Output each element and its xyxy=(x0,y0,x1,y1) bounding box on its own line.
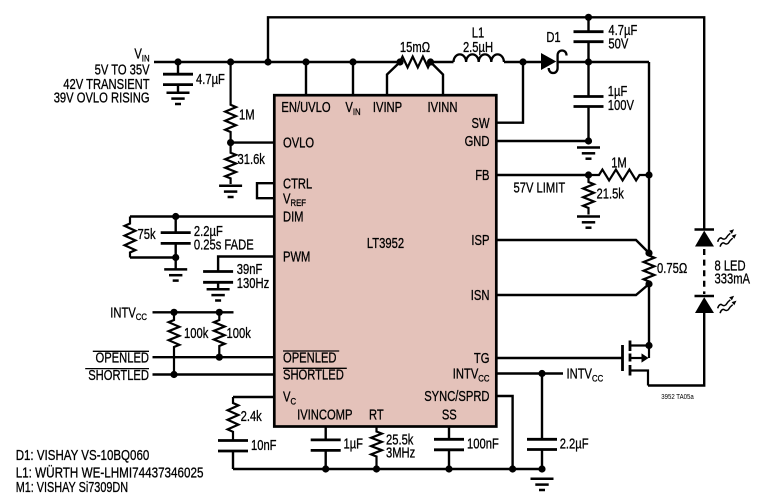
ground DIM cap xyxy=(164,268,187,271)
junction input cap xyxy=(174,58,181,65)
wire PWM xyxy=(218,257,274,272)
svg-text:PWM: PWM xyxy=(283,250,310,266)
svg-text:100k: 100k xyxy=(184,326,209,342)
svg-text:INTV: INTV xyxy=(110,305,136,321)
wire VC xyxy=(233,396,274,398)
svg-text:OPENLED: OPENLED xyxy=(283,350,337,366)
svg-text:100nF: 100nF xyxy=(467,437,499,453)
junction 15mOhm right xyxy=(427,58,434,65)
svg-text:1M: 1M xyxy=(611,156,627,172)
wire FB xyxy=(496,174,588,176)
ground GND pin xyxy=(577,146,600,149)
svg-text:1µF: 1µF xyxy=(344,437,364,453)
junction IVINCOMP gnd xyxy=(322,465,329,472)
svg-text:CC: CC xyxy=(592,373,603,384)
junction 1M FB right xyxy=(645,171,652,178)
svg-text:0.25s FADE: 0.25s FADE xyxy=(194,237,254,253)
svg-text:SS: SS xyxy=(442,408,457,424)
capacitor 1uF IVINCOMP xyxy=(311,438,341,441)
svg-text:100V: 100V xyxy=(608,98,634,114)
svg-text:OVLO: OVLO xyxy=(283,136,314,152)
junction EN/UVLO xyxy=(302,58,309,65)
junction DIM cap bottom xyxy=(172,254,179,261)
junction VIN pin xyxy=(349,58,356,65)
junction 100k left top xyxy=(170,309,177,316)
svg-text:ISP: ISP xyxy=(471,233,489,249)
svg-text:57V LIMIT: 57V LIMIT xyxy=(514,181,566,197)
junction output cap top xyxy=(585,14,592,21)
wire ISP xyxy=(496,240,649,253)
svg-text:SW: SW xyxy=(472,116,490,132)
svg-text:31.6k: 31.6k xyxy=(238,152,266,168)
wire EN/UVLO drop xyxy=(305,62,307,95)
svg-text:SYNC/SPRD: SYNC/SPRD xyxy=(424,389,489,405)
junction INTVCC cap gnd xyxy=(538,465,545,472)
junction output caps xyxy=(585,58,592,65)
svg-text:333mA: 333mA xyxy=(715,271,751,287)
junction INTVCC xyxy=(538,370,545,377)
svg-text:FB: FB xyxy=(475,168,489,184)
wire LED return xyxy=(648,313,704,386)
svg-text:D1: D1 xyxy=(546,30,560,46)
junction SYNC/SPRD gnd xyxy=(509,465,516,472)
wire VIN pin drop xyxy=(352,62,354,95)
svg-text:2.4k: 2.4k xyxy=(241,409,263,425)
transistor M1 PMOS xyxy=(621,345,624,371)
junction ISP xyxy=(645,249,652,256)
junction SW node xyxy=(519,58,526,65)
capacitor 39nF xyxy=(203,270,233,273)
svg-text:2.5µH: 2.5µH xyxy=(463,40,493,56)
resistor 1M OVLO xyxy=(225,62,236,143)
junction SS gnd xyxy=(445,465,452,472)
svg-text:L1: L1 xyxy=(472,26,485,42)
svg-text:OPENLED: OPENLED xyxy=(96,351,150,367)
junction top rail branch xyxy=(264,58,271,65)
wire VIN rail xyxy=(154,61,400,63)
resistor 100k right xyxy=(214,312,225,357)
svg-text:100k: 100k xyxy=(227,326,252,342)
diode D1 schottky cathode xyxy=(549,50,567,73)
wire sense to M1 drain xyxy=(648,285,650,346)
wire SYNC/SPRD xyxy=(496,396,512,469)
svg-text:1M: 1M xyxy=(239,108,255,124)
junction OVLO xyxy=(227,139,234,146)
svg-text:ISN: ISN xyxy=(471,288,490,304)
svg-text:EN/UVLO: EN/UVLO xyxy=(281,100,330,116)
capacitor 10nF xyxy=(218,439,248,442)
capacitor 2.2uF INTVCC xyxy=(527,438,557,441)
svg-text:CC: CC xyxy=(478,373,489,384)
svg-text:IVINP: IVINP xyxy=(373,100,402,116)
resistor 75k xyxy=(125,217,136,258)
junction 15mOhm left xyxy=(396,58,403,65)
svg-text:130Hz: 130Hz xyxy=(237,276,269,292)
ground INTVCC xyxy=(531,478,554,481)
ground 21.5k xyxy=(577,215,600,218)
svg-text:REF: REF xyxy=(291,198,307,209)
wire bottom rail xyxy=(233,468,542,470)
svg-text:SHORTLED: SHORTLED xyxy=(283,368,344,384)
svg-text:D1: VISHAY VS-10BQ060: D1: VISHAY VS-10BQ060 xyxy=(16,448,150,464)
wire top rail xyxy=(268,17,704,229)
wire 15mOhm to L1 xyxy=(431,61,454,63)
svg-text:75k: 75k xyxy=(138,227,157,243)
capacitor 100nF SS xyxy=(434,438,464,441)
wire DIM xyxy=(130,215,274,217)
svg-text:SHORTLED: SHORTLED xyxy=(88,368,149,384)
svg-text:0.75Ω: 0.75Ω xyxy=(657,261,687,277)
resistor 1M FB xyxy=(589,170,650,181)
ground input cap xyxy=(167,92,190,95)
svg-text:CC: CC xyxy=(136,312,147,323)
svg-text:RT: RT xyxy=(369,408,384,424)
svg-text:21.5k: 21.5k xyxy=(597,187,625,203)
wire IVINN xyxy=(431,62,444,95)
svg-text:TG: TG xyxy=(474,351,490,367)
wire GND pin xyxy=(496,140,588,142)
wire CTRL-VREF jumper xyxy=(257,183,274,198)
wire SHORTLED xyxy=(153,373,275,375)
wire ISN xyxy=(496,284,649,295)
svg-text:V: V xyxy=(283,390,291,406)
svg-text:3952 TA05a: 3952 TA05a xyxy=(661,392,694,401)
svg-text:10nF: 10nF xyxy=(251,438,277,454)
wire TG xyxy=(496,357,622,359)
capacitor 1uF 100V xyxy=(574,95,604,98)
wire INTVCC pin xyxy=(496,372,563,374)
svg-text:CTRL: CTRL xyxy=(283,176,312,192)
ground 31.6k xyxy=(219,185,242,188)
resistor 2.4k xyxy=(228,397,239,441)
junction M1 drain xyxy=(645,342,652,349)
svg-text:IN: IN xyxy=(353,107,361,118)
svg-text:3MHz: 3MHz xyxy=(386,445,415,461)
svg-text:C: C xyxy=(291,396,297,407)
wire SW xyxy=(496,62,523,123)
svg-text:IVINCOMP: IVINCOMP xyxy=(297,408,353,424)
junction 100k right top xyxy=(216,309,223,316)
resistor 31.6k xyxy=(225,143,236,184)
op-amp U1 LT3952 IC body xyxy=(274,95,496,426)
junction DIM cap top xyxy=(172,213,179,220)
wire IVINP xyxy=(387,62,400,95)
wire OVLO xyxy=(231,141,275,143)
svg-text:LT3952: LT3952 xyxy=(367,236,404,252)
diode D1 triangle xyxy=(541,53,556,70)
svg-text:V: V xyxy=(283,191,291,207)
wire INTVCC stub xyxy=(153,311,234,313)
led light arrows LED2 xyxy=(718,296,737,314)
junction GND xyxy=(585,137,592,144)
resistor 25.5k RT xyxy=(371,427,382,470)
junction RT gnd xyxy=(373,465,380,472)
junction SHORTLED xyxy=(170,371,177,378)
svg-text:IVINN: IVINN xyxy=(428,100,458,116)
junction ISN xyxy=(645,280,652,287)
led light arrows LED1 xyxy=(718,229,737,247)
svg-text:15mΩ: 15mΩ xyxy=(400,40,430,56)
wire 75k bottom xyxy=(130,256,176,258)
svg-text:2.2µF: 2.2µF xyxy=(560,437,589,453)
svg-text:50V: 50V xyxy=(608,37,628,53)
junction OPENLED xyxy=(216,354,223,361)
wire output rail xyxy=(648,62,650,253)
capacitor 2.2uF DIM xyxy=(161,231,191,234)
resistor 100k left xyxy=(169,312,180,374)
resistor 15mOhm sense xyxy=(400,57,431,68)
wire L1 to D1 xyxy=(504,61,541,63)
junction 1M divider xyxy=(227,58,234,65)
resistor 21.5k xyxy=(583,175,594,215)
led LED2 xyxy=(695,295,715,298)
wire D1 cathode out xyxy=(558,61,649,63)
capacitor 4.7uF input xyxy=(163,73,193,76)
svg-text:4.7µF: 4.7µF xyxy=(196,72,225,88)
svg-text:DIM: DIM xyxy=(283,210,304,226)
ground 39nF xyxy=(207,288,230,291)
svg-text:GND: GND xyxy=(465,134,490,150)
svg-text:INTV: INTV xyxy=(567,367,593,383)
wire LED dashed xyxy=(703,249,705,294)
junction FB xyxy=(585,171,592,178)
capacitor 4.7uF 50V xyxy=(574,30,604,33)
svg-text:L1: WÜRTH WE-LHMI74437346025: L1: WÜRTH WE-LHMI74437346025 xyxy=(16,463,204,481)
svg-text:INTV: INTV xyxy=(453,367,479,383)
led LED1 xyxy=(695,228,715,231)
wire OPENLED xyxy=(153,356,275,358)
svg-text:39V OVLO RISING: 39V OVLO RISING xyxy=(54,91,150,107)
svg-text:M1: VISHAY Si7309DN: M1: VISHAY Si7309DN xyxy=(16,480,128,496)
resistor 0.75ohm xyxy=(644,253,655,284)
svg-text:5V TO 35V: 5V TO 35V xyxy=(95,62,150,78)
inductor L1 2.5uH xyxy=(454,54,504,62)
